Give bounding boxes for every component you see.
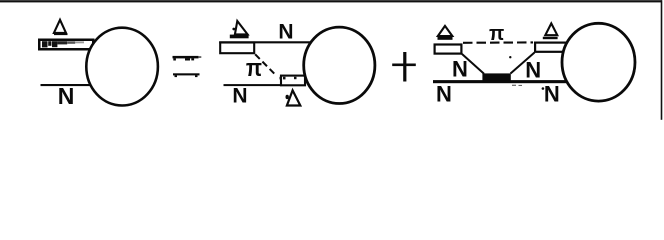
- hadronic blob (left): [86, 28, 158, 106]
- stray dot near Delta: [232, 28, 235, 31]
- wire: thick nucleon line (bottom): [433, 80, 568, 83]
- scan marks inside bottom Delta box: [280, 77, 282, 80]
- underline of Delta label 2: [543, 37, 558, 39]
- svg-text:π: π: [489, 23, 504, 45]
- Delta propagator box (bottom, to blob) D2b: [281, 76, 305, 86]
- underline of Delta label: [230, 35, 249, 39]
- frame top border: [0, 0, 662, 2]
- scan smudge inside Delta box: [42, 41, 84, 47]
- svg-text:N: N: [452, 57, 468, 82]
- stray dot left of bottom Delta: [286, 95, 289, 99]
- top harpoon bar: [173, 56, 199, 59]
- svg-text:N: N: [278, 20, 293, 43]
- plus sign: [392, 52, 416, 82]
- pion propagator (dashed): [255, 54, 276, 75]
- underline of Delta label: [438, 37, 453, 40]
- label Delta (incoming, top): [54, 20, 66, 33]
- svg-text:N: N: [544, 81, 560, 106]
- stray dot above ascending N line: [509, 56, 511, 58]
- label Delta (top-left incoming): [235, 21, 248, 34]
- Delta propagator (double-line box) D1: [39, 40, 93, 50]
- bottom harpoon bar: [173, 73, 200, 75]
- stray dot left of bottom-right N: [542, 87, 545, 90]
- scan noise dashes under line: [512, 85, 516, 86]
- hadronic blob (right): [562, 23, 635, 101]
- svg-text:N: N: [436, 81, 452, 106]
- label Delta (top far left): [438, 26, 452, 36]
- frame right border: [661, 0, 663, 120]
- pion propagator (long dashed, top): [463, 41, 533, 43]
- wire: N line from Delta box end to blob (top): [219, 41, 312, 43]
- label Delta (bottom): [287, 90, 300, 105]
- Delta propagator box D3a (top left): [435, 45, 462, 54]
- wire: incoming N line (bottom): [224, 84, 283, 86]
- hadronic blob (middle): [304, 27, 375, 103]
- underline of Delta label: [54, 33, 68, 35]
- svg-text:π: π: [246, 55, 262, 82]
- Delta propagator box D3b (top right, into blob): [535, 43, 569, 52]
- wire: N line from NN vertex up to Delta box 2: [511, 53, 535, 74]
- svg-text:N: N: [232, 84, 247, 107]
- filled NN-interaction box: [482, 73, 510, 81]
- label Delta (top, near blob): [545, 23, 557, 35]
- wire: nucleon N line (lower left leg): [41, 84, 92, 86]
- wire: N line from Delta box down to NN vertex: [462, 54, 484, 74]
- svg-text:N: N: [525, 57, 541, 82]
- Delta propagator box (top left) D2a: [220, 43, 254, 54]
- svg-text:N: N: [58, 83, 75, 109]
